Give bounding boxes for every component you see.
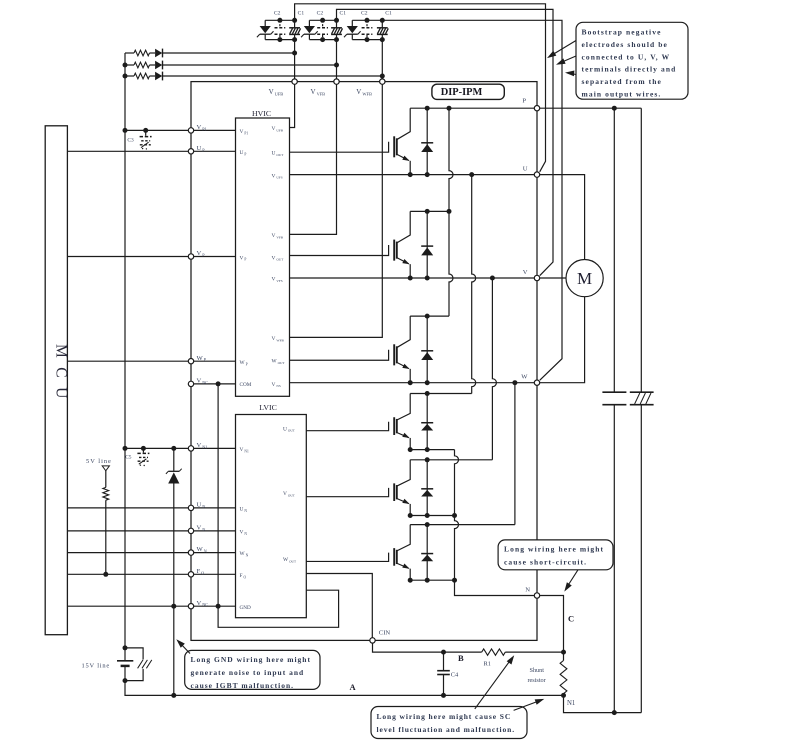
capacitor C2 (bootstrap unit 2) (322, 20, 324, 27)
junction FO pull-up (103, 572, 108, 577)
pull-up resistor R2 (FO pull-up) (105, 471, 107, 488)
wire VUFB terminal to HVIC pin (290, 40, 295, 128)
bootstrap unit 2 top rail (309, 19, 336, 21)
terminal VN (188, 528, 193, 533)
wire WN row MCU to LVIC (67, 552, 235, 554)
svg-text:C1: C1 (385, 10, 392, 16)
terminal N (534, 593, 539, 598)
bootstrap unit 1 top rail (265, 19, 294, 21)
junction emitter bus Q5 (452, 513, 457, 518)
Q5 emitter node wire (410, 515, 454, 517)
wire bootstrap1 negative rail to U (295, 4, 546, 172)
junction shunt top node (561, 650, 566, 655)
W phase node wire (290, 382, 535, 384)
freewheel diode D6 of Q2 (426, 211, 428, 278)
freewheel diode D7 of Q3 (426, 316, 428, 383)
terminal CIN (370, 638, 375, 643)
svg-text:Long GND wiring here might: Long GND wiring here might (191, 655, 311, 664)
junction row1 to VUFB wire (292, 51, 297, 56)
junction diode D8 anode (425, 447, 430, 452)
svg-text:electrodes should be: electrodes should be (582, 40, 668, 49)
svg-text:HVIC: HVIC (252, 109, 271, 118)
bootstrap unit 2 bottom rail (309, 39, 336, 41)
transistor Q2 (IGBT) (397, 211, 411, 243)
wire UN row MCU to LVIC (67, 507, 235, 509)
wire R1 to shunt top (505, 651, 563, 653)
MCU block (45, 126, 67, 635)
junction C4 bottom (441, 693, 446, 698)
Q3 collector rail (410, 315, 449, 317)
svg-text:C4: C4 (451, 672, 459, 679)
wire ground drop to bottom rail (640, 405, 642, 713)
terminal VWFB (380, 79, 385, 84)
junction Q3 collector-diode (425, 314, 430, 319)
junction battery bottom (123, 678, 128, 683)
junction P rail to bus capacitor (612, 106, 617, 111)
svg-text:C2: C2 (317, 10, 324, 16)
junction Q1 collector-diode (425, 106, 430, 111)
svg-text:5V line: 5V line (86, 458, 112, 465)
callout arrow to wire V (559, 56, 577, 64)
freewheel diode D8 of Q4 (426, 394, 428, 450)
wire VVFB terminal to HVIC pin (290, 40, 337, 235)
capacitor C1 (bootstrap unit 1) (294, 20, 296, 27)
svg-text:C3: C3 (127, 138, 134, 144)
terminal VP1 (188, 128, 193, 133)
capacitor C4 (443, 652, 445, 670)
bootstrap unit 3 top rail (352, 19, 382, 21)
junction U node to low-side stub (469, 172, 474, 177)
zener diode D3 (bootstrap unit 3) (351, 20, 353, 26)
diode row2 (155, 61, 162, 69)
callout arrow to GND link (179, 642, 191, 654)
wire VP row MCU to HVIC (67, 256, 235, 258)
svg-text:separated from the: separated from the (582, 77, 662, 86)
DIP-IPM package outline (191, 82, 537, 641)
wire VNC upper terminal to COM pin (191, 383, 236, 385)
junction power ground to control ground (171, 693, 176, 698)
terminal VNC lower (188, 604, 193, 609)
resistor row3 (134, 73, 150, 79)
svg-text:C2: C2 (361, 10, 368, 16)
junction diode D6 anode (425, 276, 430, 281)
svg-text:GND: GND (240, 605, 251, 611)
motor M (566, 260, 603, 297)
callout GND wiring note (185, 650, 320, 689)
wire LVIC CIN pin to CIN terminal (306, 574, 372, 641)
svg-text:CIN: CIN (379, 630, 391, 637)
capacitor C2 (bootstrap unit 3) (366, 20, 368, 27)
callout arrow to node C (566, 570, 578, 589)
terminal VN1 (188, 446, 193, 451)
gate lead Q5 (306, 488, 388, 497)
junction COM to GND link (216, 381, 221, 386)
zener diode D1 (bootstrap unit 1) (264, 20, 266, 26)
wire N1 to bottom right rail (564, 695, 642, 712)
junction diode D5 anode (425, 172, 430, 177)
transistor Q6 (IGBT) (397, 525, 411, 551)
wire CIN to R1 line (373, 643, 444, 652)
junction diode D9 anode (425, 513, 430, 518)
Q2 collector rail (410, 210, 449, 212)
svg-text:M: M (577, 269, 592, 288)
wire to R1 (444, 651, 482, 653)
svg-text:U: U (523, 165, 528, 172)
junction Q4 collector-diode (425, 391, 430, 396)
transistor Q1 (IGBT) (397, 108, 411, 140)
V stub down to Q5 (492, 278, 496, 460)
terminal U (534, 172, 539, 177)
gate lead Q6 (306, 553, 388, 562)
junction VNC-GND node (216, 604, 221, 609)
wire N terminal to shunt (node C) (540, 596, 564, 653)
svg-text:15V line: 15V line (82, 663, 110, 670)
battery 15V line (124, 648, 126, 661)
svg-text:LVIC: LVIC (259, 403, 276, 412)
V phase node wire (290, 277, 535, 279)
capacitor C5 (141, 446, 146, 451)
ground symbol (15V line) (138, 660, 143, 668)
svg-text:P: P (522, 97, 526, 104)
op-amp driver HVIC U1 (236, 118, 290, 396)
battery 15V line junction top (123, 645, 128, 650)
15V bus wire (left vertical rail) (124, 53, 126, 648)
bootstrap charge row 1 wire (125, 52, 134, 54)
gate lead Q4 (306, 422, 388, 431)
svg-text:generate noise to input and: generate noise to input and (191, 668, 305, 677)
svg-text:C: C (568, 614, 574, 624)
junction Q4 emitter (408, 447, 413, 452)
svg-text:C1: C1 (340, 10, 347, 16)
Q5 collector rail (410, 459, 492, 461)
capacitor C2 (bootstrap unit 1) (279, 20, 281, 27)
wire P rail right drop (640, 108, 642, 392)
Q4 emitter node wire (410, 449, 454, 451)
DC bus capacitor upper lead (613, 108, 615, 392)
junction bus VP1 (123, 128, 128, 133)
svg-text:A: A (350, 682, 357, 692)
wire V terminal to motor (540, 277, 566, 279)
wire 5V pullup to FO (105, 500, 107, 574)
wire VP1 row (125, 129, 236, 131)
junction bus row2 (123, 63, 128, 68)
wire FO row MCU to LVIC (67, 573, 235, 575)
terminal V (534, 275, 539, 280)
resistor R1 (482, 649, 506, 655)
junction W node to low-side stub (512, 380, 517, 385)
svg-text:C5: C5 (125, 455, 132, 461)
wire GND pin loop (218, 590, 339, 627)
resistor row1 (134, 50, 150, 56)
junction node N1 (561, 693, 566, 698)
transistor Q3 (IGBT) (397, 316, 411, 348)
callout arrow to wire U (550, 41, 577, 57)
callout arrow to N1 wire (514, 700, 542, 710)
P stub continues to Q3 (449, 211, 453, 316)
callout bootstrap note (576, 22, 688, 99)
wire motor to W terminal (540, 297, 585, 383)
junction Q6 collector-diode (425, 522, 430, 527)
junction Q1 emitter (408, 172, 413, 177)
ground symbol (hatched capacitor) (630, 391, 654, 393)
junction C4 top (441, 650, 446, 655)
W stub down to Q6 (514, 383, 516, 525)
transistor Q5 (IGBT) (397, 460, 411, 486)
Q4 collector rail (410, 393, 472, 395)
diode row3 (155, 72, 162, 80)
wire power ground rail (125, 681, 564, 696)
zener diode D4 (15V clamp) (173, 448, 175, 471)
svg-text:Bootstrap negative: Bootstrap negative (582, 28, 662, 37)
junction Q6 emitter (408, 578, 413, 583)
emitter bus continues (455, 516, 459, 581)
svg-text:Long wiring here might cause S: Long wiring here might cause SC (377, 712, 512, 721)
wire VNC lower row MCU to GND pin (67, 605, 235, 607)
terminal VVFB (334, 79, 339, 84)
terminal WP (188, 359, 193, 364)
wire bootstrap3 negative rail to W (382, 20, 562, 380)
terminal VUFB (292, 79, 297, 84)
wire P to Q2 Q3 collectors stub (447, 106, 452, 111)
junction Q3 emitter (408, 380, 413, 385)
junction diode D10 anode (425, 578, 430, 583)
svg-text:DIP-IPM: DIP-IPM (441, 87, 483, 98)
freewheel diode D10 of Q6 (426, 525, 428, 581)
bootstrap charge row 3 wire (125, 75, 134, 77)
Q6 collector rail (410, 524, 515, 526)
callout arrow to R1-shunt wire (475, 658, 512, 709)
resistor row2 (134, 62, 150, 68)
P rail wire (410, 107, 641, 109)
svg-text:resistor: resistor (528, 677, 546, 684)
DC bus capacitor (602, 391, 626, 393)
transistor Q4 (IGBT) (397, 394, 411, 421)
U stub down to Q4 (472, 175, 476, 330)
capacitor C1 (bootstrap unit 2) (336, 20, 338, 27)
wire bootstrap2 negative rail to V (337, 9, 554, 275)
terminal UN (188, 505, 193, 510)
freewheel diode D5 of Q1 (426, 108, 428, 174)
junction Q5 collector-diode (425, 457, 430, 462)
junction bus VN1 (123, 446, 128, 451)
junction emitter bus Q6 (452, 578, 457, 583)
wire WP row MCU to HVIC (67, 360, 235, 362)
junction row2 to VVFB wire (334, 63, 339, 68)
shunt resistor (563, 652, 565, 660)
bootstrap unit 3 bottom rail (352, 39, 382, 41)
svg-text:V: V (523, 269, 528, 276)
svg-text:level fluctuation and malfunct: level fluctuation and malfunction. (377, 725, 516, 734)
wire GND node to power ground link (173, 606, 175, 695)
svg-text:B: B (458, 653, 464, 663)
junction bus row3 (123, 74, 128, 79)
frame ground branch of 15V line (125, 648, 143, 660)
DIP-IPM label box (432, 84, 504, 99)
gate lead Q3 (290, 350, 389, 361)
terminal P (534, 106, 539, 111)
junction Q2 collector-diode (425, 209, 430, 214)
wire VWFB terminal to HVIC pin (290, 40, 383, 338)
callout SC level note (371, 707, 527, 739)
junction Q2 emitter (408, 276, 413, 281)
zener diode D2 (bootstrap unit 2) (308, 20, 310, 26)
svg-text:C2: C2 (274, 10, 281, 16)
op-amp driver LVIC U2 (236, 415, 307, 618)
gate lead Q2 (290, 245, 389, 256)
capacitor C1 (bootstrap unit 3) (381, 20, 383, 27)
wire VN1 row (125, 447, 236, 449)
svg-text:cause short-circuit.: cause short-circuit. (504, 558, 587, 567)
terminal VP (188, 254, 193, 259)
svg-text:terminals directly and: terminals directly and (582, 65, 677, 74)
svg-text:Shunt: Shunt (530, 667, 545, 674)
junction bottom rail (612, 710, 617, 715)
wire UP row MCU to HVIC (67, 150, 235, 152)
svg-text:W: W (521, 374, 528, 381)
gate lead Q1 (290, 142, 389, 153)
wire VN row MCU to LVIC (67, 530, 235, 532)
wire U terminal to motor (540, 175, 585, 260)
svg-text:Long wiring here might: Long wiring here might (504, 545, 604, 554)
junction zener to GND node (171, 604, 176, 609)
U phase node wire (290, 174, 535, 176)
junction Q5 emitter (408, 513, 413, 518)
DC bus capacitor lower lead (613, 405, 615, 713)
svg-text:cause IGBT malfunction.: cause IGBT malfunction. (191, 681, 295, 690)
zener diode D4 junction top (171, 446, 176, 451)
capacitor C3 (143, 128, 148, 133)
terminal VNC upper (188, 381, 193, 386)
freewheel diode D9 of Q5 (426, 460, 428, 516)
bootstrap charge row 2 wire (125, 64, 134, 66)
terminal UP (188, 149, 193, 154)
terminal W (534, 380, 539, 385)
svg-text:MCU: MCU (52, 344, 69, 408)
svg-text:C1: C1 (298, 10, 305, 16)
svg-text:main output wires.: main output wires. (582, 89, 662, 98)
callout arrow to wire W (568, 73, 577, 75)
svg-text:N: N (525, 586, 530, 593)
Q6 emitter node wire (410, 579, 454, 581)
wire COM-GND link vertical (217, 384, 219, 606)
junction diode D7 anode (425, 380, 430, 385)
callout short-circuit note (498, 540, 613, 570)
terminal WN (188, 550, 193, 555)
wire emitter bus to N terminal (455, 580, 535, 595)
svg-text:COM: COM (240, 382, 252, 388)
svg-text:connected to U, V, W: connected to U, V, W (582, 52, 671, 61)
diode row1 (155, 49, 162, 57)
bootstrap unit 1 bottom rail (265, 39, 294, 41)
terminal FO (188, 572, 193, 577)
junction V node to low-side stub (490, 276, 495, 281)
low-side emitter bus (455, 450, 459, 516)
svg-text:N1: N1 (567, 700, 575, 707)
junction row3 to VWFB wire (380, 74, 385, 79)
junction P-stub at Q2 collector (447, 209, 452, 214)
svg-text:R1: R1 (484, 661, 491, 668)
